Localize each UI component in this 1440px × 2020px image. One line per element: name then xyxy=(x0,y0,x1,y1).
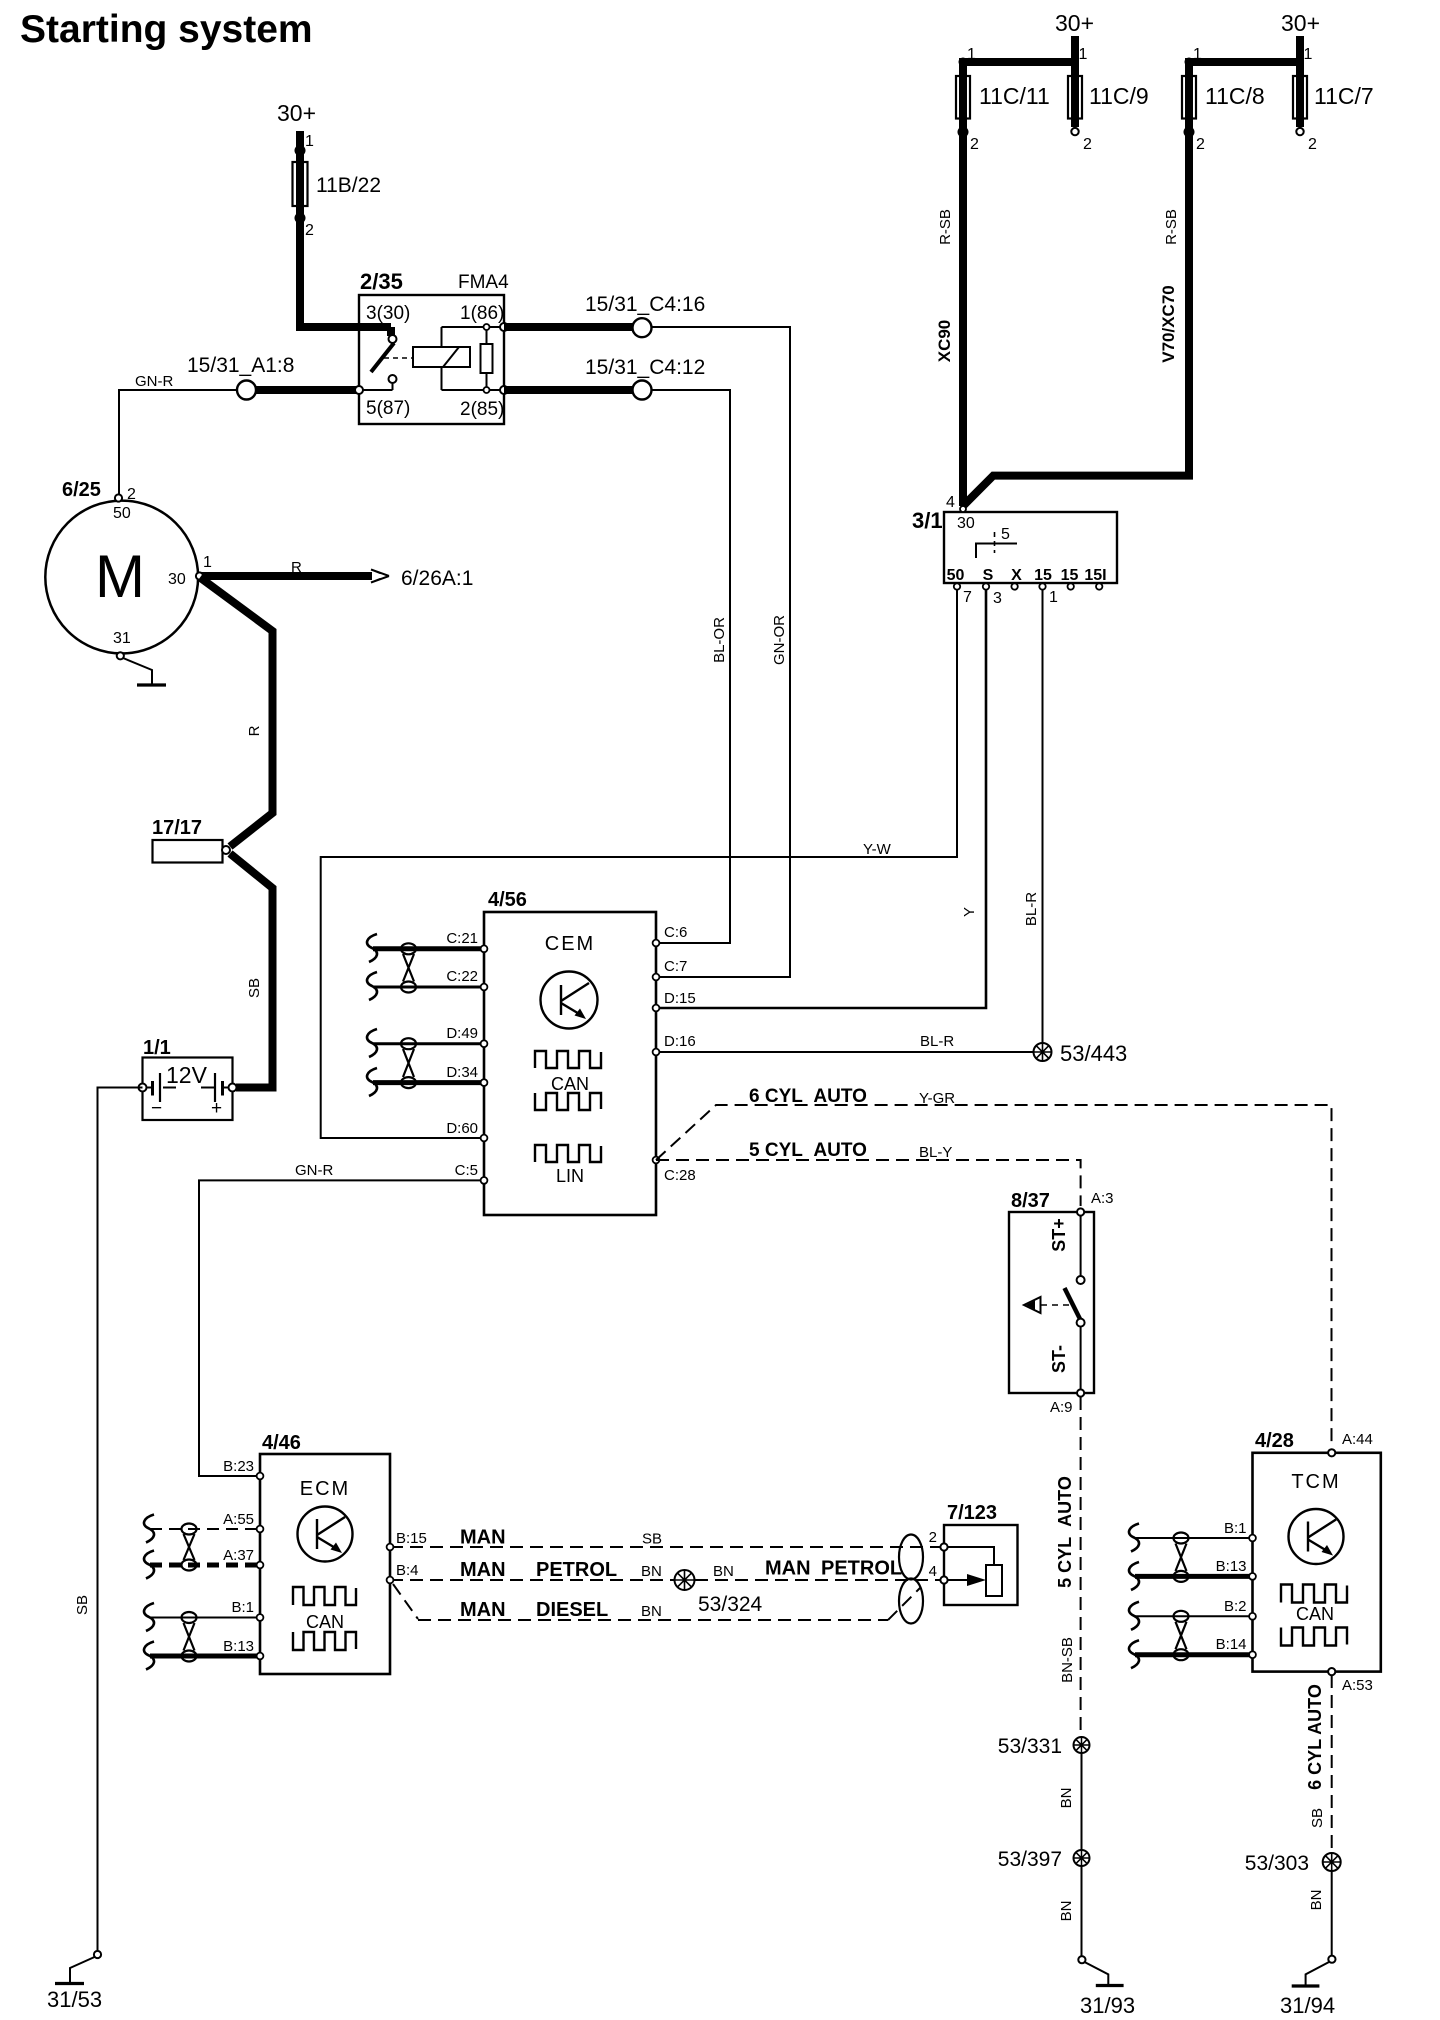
7/123 pin 2 xyxy=(929,1529,948,1551)
hook D:34 xyxy=(367,1068,377,1096)
svg-text:2: 2 xyxy=(305,222,314,239)
TCM control-unit icon xyxy=(1289,1509,1344,1564)
wire thick 15/31_A1:8 to relay pin 5(87) xyxy=(254,386,359,394)
svg-text:2(85): 2(85) xyxy=(460,399,504,420)
twist C:21/C:22 xyxy=(401,943,416,992)
hook TCM B:1 xyxy=(1129,1524,1139,1552)
wire BN splice 53/331 to splice 53/397 xyxy=(1058,1753,1082,1850)
motor pin 2 xyxy=(115,486,136,503)
ignition switch 3/1 box xyxy=(912,508,1117,583)
svg-text:S: S xyxy=(983,567,994,584)
wire ECM B:1 (twisted) xyxy=(150,1617,260,1619)
svg-text:15: 15 xyxy=(1034,567,1052,584)
fuse 11B/22 xyxy=(293,162,382,206)
ground 31/53 xyxy=(47,1951,102,2012)
wire ECM A:37 (dashed thick twisted) xyxy=(150,1563,260,1568)
svg-text:Y: Y xyxy=(961,907,978,917)
svg-text:B:13: B:13 xyxy=(1216,1558,1247,1575)
svg-text:R-SB: R-SB xyxy=(937,209,954,245)
connector 15/31_A1:8 xyxy=(187,354,294,400)
hook A:37 xyxy=(144,1551,154,1579)
wire MAN SB (dashed) ECM B:15 to 7/123 pin 2 xyxy=(390,1527,940,1549)
svg-text:6/25: 6/25 xyxy=(62,479,101,501)
svg-text:BL-OR: BL-OR xyxy=(711,617,728,663)
svg-text:30: 30 xyxy=(168,571,186,588)
svg-text:SB: SB xyxy=(246,978,263,998)
svg-text:11C/9: 11C/9 xyxy=(1089,83,1149,109)
svg-text:BL-R: BL-R xyxy=(1023,892,1040,926)
svg-text:1/1: 1/1 xyxy=(143,1037,171,1059)
CEM LIN symbol xyxy=(535,1145,601,1186)
svg-text:MAN: MAN xyxy=(460,1527,506,1549)
twist A:55/A:37 xyxy=(182,1524,197,1571)
relay 2/35 internal rails xyxy=(359,327,504,390)
fuse 11B/22 pin 2 xyxy=(295,213,315,240)
ground 31/93 xyxy=(1078,1956,1135,2018)
CEM pin D:15 xyxy=(653,990,696,1011)
svg-text:D:60: D:60 xyxy=(446,1120,478,1137)
svg-text:15I: 15I xyxy=(1084,567,1106,584)
svg-text:TCM: TCM xyxy=(1291,1471,1340,1493)
svg-text:BN: BN xyxy=(1308,1890,1325,1911)
hook A:55 xyxy=(144,1515,154,1543)
CEM 4/56 box xyxy=(484,889,656,1215)
svg-text:BL-Y: BL-Y xyxy=(919,1144,952,1161)
svg-text:3/1: 3/1 xyxy=(912,508,943,533)
CEM pin C:5 xyxy=(455,1162,488,1184)
ECM pin B:4 xyxy=(387,1562,419,1583)
svg-text:1: 1 xyxy=(1193,46,1202,63)
ECM 4/46 box xyxy=(260,1432,390,1674)
svg-text:6/26A:1: 6/26A:1 xyxy=(401,567,473,590)
svg-text:R: R xyxy=(246,725,263,736)
relay 2/35 resistor xyxy=(481,324,493,393)
splice 53/324 xyxy=(675,1570,763,1616)
svg-text:31/94: 31/94 xyxy=(1280,1993,1335,2018)
wire 6 CYL AUTO Y-GR (dashed) CEM C:28 to TCM A:44 xyxy=(656,1086,1332,1448)
svg-text:1: 1 xyxy=(1304,46,1313,63)
svg-text:ECM: ECM xyxy=(300,1478,350,1500)
svg-text:−: − xyxy=(151,1098,162,1119)
relay pin circles xyxy=(355,323,508,394)
svg-text:2: 2 xyxy=(1083,136,1092,153)
svg-text:C:7: C:7 xyxy=(664,958,687,975)
svg-text:53/397: 53/397 xyxy=(998,1848,1062,1871)
fuse 11C/7 pin 2 xyxy=(1296,128,1317,153)
ignition 3/1 pin circles xyxy=(954,583,1103,589)
relay 2/35 box xyxy=(359,269,509,424)
ECM pin B:1 xyxy=(231,1599,263,1621)
hook C:22 xyxy=(367,972,377,1000)
ignition 3/1 pin numbers xyxy=(963,589,1058,607)
wire CEM C:22 (twisted) xyxy=(373,986,484,989)
twist before 7/123 xyxy=(899,1535,923,1624)
ECM CAN symbol xyxy=(293,1587,356,1650)
svg-text:2: 2 xyxy=(127,486,136,503)
svg-text:30: 30 xyxy=(957,515,975,532)
svg-text:DIESEL: DIESEL xyxy=(536,1599,608,1621)
motor pin 31 xyxy=(117,652,124,659)
svg-text:C:21: C:21 xyxy=(446,930,478,947)
gear position sensor 7/123 xyxy=(944,1502,1018,1605)
svg-text:2/35: 2/35 xyxy=(360,269,403,294)
svg-text:D:34: D:34 xyxy=(446,1064,478,1081)
hook TCM B:14 xyxy=(1129,1640,1139,1668)
svg-text:1: 1 xyxy=(967,46,976,63)
fuse 11C/11 xyxy=(956,76,1050,119)
wire TCM B:14 (twisted) xyxy=(1135,1652,1253,1657)
svg-text:C:5: C:5 xyxy=(455,1162,478,1179)
svg-text:8/37: 8/37 xyxy=(1011,1190,1050,1212)
hook C:21 xyxy=(367,934,377,962)
wire CEM C:21 (twisted) xyxy=(373,946,484,951)
svg-text:B:15: B:15 xyxy=(396,1530,427,1547)
CEM pin C:22 xyxy=(446,968,487,990)
svg-text:D:15: D:15 xyxy=(664,990,696,1007)
svg-text:BN-SB: BN-SB xyxy=(1059,1637,1076,1683)
CEM pin C:7 xyxy=(653,958,688,980)
hook B:13 xyxy=(144,1642,154,1670)
svg-text:B:1: B:1 xyxy=(1224,1520,1247,1537)
twist B:1/B:13 (TCM) xyxy=(1174,1533,1189,1582)
svg-text:30+: 30+ xyxy=(1281,10,1320,36)
svg-text:1: 1 xyxy=(203,554,212,571)
svg-text:15/31_A1:8: 15/31_A1:8 xyxy=(187,354,294,377)
svg-text:R-SB: R-SB xyxy=(1163,209,1180,245)
svg-text:B:4: B:4 xyxy=(396,1562,419,1579)
clutch switch 8/37 box xyxy=(1009,1190,1094,1393)
wire 30+ to relay 2/35 pin 3(30) xyxy=(300,131,391,336)
wire TCM B:13 (twisted) xyxy=(1135,1574,1253,1579)
fuse 11C/8 xyxy=(1182,76,1265,119)
svg-text:BN: BN xyxy=(713,1563,734,1580)
svg-text:ST-: ST- xyxy=(1049,1345,1069,1373)
svg-text:11C/11: 11C/11 xyxy=(979,83,1050,109)
svg-text:2: 2 xyxy=(1196,136,1205,153)
ECM control-unit icon xyxy=(298,1507,353,1562)
8/37 pin A:3 xyxy=(1077,1190,1114,1216)
svg-text:B:1: B:1 xyxy=(231,1599,254,1616)
svg-text:15/31_C4:12: 15/31_C4:12 xyxy=(585,356,705,379)
splice 53/331 xyxy=(998,1735,1090,1758)
svg-text:B:13: B:13 xyxy=(223,1638,254,1655)
wire BL-R CEM D:16 to splice 53/443 xyxy=(658,1033,1042,1052)
svg-text:11C/8: 11C/8 xyxy=(1205,83,1265,109)
svg-text:11B/22: 11B/22 xyxy=(316,174,381,197)
svg-text:BN: BN xyxy=(641,1563,662,1580)
svg-text:4: 4 xyxy=(946,494,955,511)
splice 53/443 xyxy=(1034,1041,1128,1066)
fuse 11C/9 xyxy=(1068,76,1149,119)
svg-text:MAN: MAN xyxy=(765,1558,811,1580)
svg-text:15: 15 xyxy=(1061,567,1079,584)
TCM CAN symbol xyxy=(1281,1585,1347,1646)
TCM 4/28 box xyxy=(1253,1430,1381,1672)
wire GN-R from connector 15/31_A1:8 to motor pin 2 xyxy=(119,373,247,494)
svg-text:6 CYL AUTO: 6 CYL AUTO xyxy=(749,1086,867,1107)
wire V70/XC70 R-SB: 11C/8 down to ignition 3/1 pin 4 xyxy=(964,58,1194,506)
svg-text:A:3: A:3 xyxy=(1091,1190,1114,1207)
splice 53/303 xyxy=(1245,1852,1341,1875)
svg-text:53/324: 53/324 xyxy=(698,1593,763,1616)
svg-text:SB: SB xyxy=(642,1531,662,1548)
svg-text:5(87): 5(87) xyxy=(366,398,410,419)
svg-text:D:16: D:16 xyxy=(664,1033,696,1050)
wire MAN PETROL BN (dashed) ECM B:4 to splice 53/324 and 7/123 pin 4 xyxy=(390,1558,940,1582)
hook TCM B:13 xyxy=(1129,1562,1139,1590)
svg-text:1: 1 xyxy=(305,133,314,150)
svg-text:5 CYL AUTO: 5 CYL AUTO xyxy=(1055,1476,1075,1588)
node 30+ (V70 feed) xyxy=(1281,10,1320,36)
svg-text:XC90: XC90 xyxy=(935,320,954,363)
svg-text:A:55: A:55 xyxy=(223,1511,254,1528)
motor pin 1 circle xyxy=(196,572,203,579)
svg-text:CAN: CAN xyxy=(306,1612,344,1632)
twist B:1/B:13 xyxy=(182,1612,197,1662)
svg-text:C:28: C:28 xyxy=(664,1167,696,1184)
svg-text:C:6: C:6 xyxy=(664,924,687,941)
wire BL-R ignition 3/1 pin 15 to splice 53/443 xyxy=(1023,590,1043,1052)
svg-text:A:53: A:53 xyxy=(1342,1677,1373,1694)
svg-text:53/443: 53/443 xyxy=(1060,1041,1127,1066)
7/123 pin 4 xyxy=(929,1563,948,1584)
wire CEM D:49 (twisted) xyxy=(373,1042,484,1045)
svg-text:PETROL: PETROL xyxy=(536,1559,617,1581)
splice 53/397 xyxy=(998,1848,1090,1871)
svg-text:4: 4 xyxy=(929,1563,937,1580)
fuse 11C/11 pin 2 xyxy=(958,127,980,154)
svg-text:30+: 30+ xyxy=(277,100,316,126)
svg-text:4/46: 4/46 xyxy=(262,1432,301,1454)
svg-text:2: 2 xyxy=(1308,136,1317,153)
svg-text:Starting system: Starting system xyxy=(20,8,313,51)
junction pin 1 (11C/11) xyxy=(959,46,1088,67)
wire CEM D:34 (twisted) xyxy=(373,1080,484,1085)
hook D:49 xyxy=(367,1029,377,1057)
connector 15/31_C4:16 xyxy=(585,293,705,337)
wire XC90 R-SB: 11C/11 down to ignition 3/1 pin 4 xyxy=(935,58,1075,506)
svg-text:BN: BN xyxy=(1058,1788,1075,1809)
wire 5 CYL AUTO BL-Y (dashed) CEM C:28 to 8/37 A:3 xyxy=(656,1140,1081,1206)
svg-text:C:22: C:22 xyxy=(446,968,478,985)
ignition 3/1 key switch symbol xyxy=(976,532,1017,558)
wire GN-OR connector C4:16 to CEM C:7 xyxy=(651,327,790,977)
node 30+ (left feed) xyxy=(277,100,316,126)
svg-text:X: X xyxy=(1011,567,1022,584)
wire thick relay 2(85) to connector 15/31_C4:12 xyxy=(504,386,633,394)
svg-text:5: 5 xyxy=(1001,526,1010,543)
svg-text:12V: 12V xyxy=(166,1062,208,1088)
wire 30+ stub through fuse 11C/9 xyxy=(1071,36,1079,127)
svg-text:B:2: B:2 xyxy=(1224,1598,1247,1615)
label GN-OR xyxy=(771,615,788,665)
8/37 pin A:9 xyxy=(1050,1389,1084,1416)
ignition 3/1 pin 4 xyxy=(946,494,966,512)
twist B:2/B:14 (TCM) xyxy=(1174,1611,1189,1660)
svg-text:50: 50 xyxy=(947,567,965,584)
hook B:1 xyxy=(144,1603,154,1631)
wire Y ignition 3/1 pin S to CEM D:15 xyxy=(658,590,986,1008)
svg-text:Y-W: Y-W xyxy=(863,841,892,858)
svg-text:30+: 30+ xyxy=(1055,10,1094,36)
fuse 11B/22 pin 1 xyxy=(295,133,315,156)
wire SB battery minus to ground 31/53 xyxy=(74,1088,143,1951)
ignition 3/1 terminal labels xyxy=(947,567,1107,584)
svg-text:7/123: 7/123 xyxy=(947,1502,997,1524)
wire Y-W ignition 3/1 pin 50 to CEM D:60 xyxy=(321,590,957,1138)
svg-text:CAN: CAN xyxy=(551,1074,589,1094)
ECM pin A:55 xyxy=(223,1511,263,1532)
8/37 actuator triangle xyxy=(1024,1297,1073,1313)
wire GN-R CEM C:5 to ECM B:23 xyxy=(199,1162,484,1476)
svg-text:31: 31 xyxy=(113,630,131,647)
svg-text:PETROL: PETROL xyxy=(821,1558,902,1580)
ECM pin A:37 xyxy=(223,1547,263,1568)
fuse 11C/7 xyxy=(1293,76,1374,119)
wire R/SB motor pin 1 to battery via 17/17 xyxy=(200,578,273,1088)
svg-text:CEM: CEM xyxy=(545,933,595,955)
wire BN splice 53/397 to ground 31/93 xyxy=(1058,1866,1082,1956)
ECM pin B:23 xyxy=(223,1458,263,1479)
svg-text:CAN: CAN xyxy=(1296,1604,1334,1624)
svg-text:53/303: 53/303 xyxy=(1245,1852,1309,1875)
TCM pin B:2 xyxy=(1224,1598,1256,1620)
TCM pin A:53 xyxy=(1328,1668,1373,1694)
svg-text:15/31_C4:16: 15/31_C4:16 xyxy=(585,293,705,316)
svg-text:D:49: D:49 xyxy=(446,1025,478,1042)
svg-text:4/28: 4/28 xyxy=(1255,1430,1294,1452)
CEM pin D:34 xyxy=(446,1064,487,1086)
svg-text:R: R xyxy=(291,559,302,576)
svg-text:MAN: MAN xyxy=(460,1599,506,1621)
wire BL-OR connector C4:12 to CEM C:6 xyxy=(651,390,730,943)
8/37 switch contacts xyxy=(1049,1215,1085,1393)
wire R motor pin 1 to 6/26A:1 (arrow) xyxy=(200,559,474,590)
svg-text:Y-GR: Y-GR xyxy=(919,1090,955,1107)
svg-text:M: M xyxy=(95,543,145,610)
battery 1/1 xyxy=(139,1037,237,1120)
TCM pin B:13 xyxy=(1216,1558,1256,1580)
svg-text:6 CYL AUTO: 6 CYL AUTO xyxy=(1305,1684,1325,1790)
motor 6/25 xyxy=(45,479,198,653)
svg-text:A:44: A:44 xyxy=(1342,1431,1373,1448)
CEM control-unit icon xyxy=(541,972,598,1029)
svg-text:A:9: A:9 xyxy=(1050,1399,1073,1416)
CEM pin C:21 xyxy=(446,930,487,952)
CEM pin C:6 xyxy=(653,924,688,946)
svg-text:SB: SB xyxy=(1309,1808,1326,1828)
svg-text:1: 1 xyxy=(1079,46,1088,63)
ECM pin B:13 xyxy=(223,1638,263,1659)
connector 15/31_C4:12 xyxy=(585,356,705,400)
relay 2/35 coil xyxy=(413,327,470,390)
TCM pin B:14 xyxy=(1216,1636,1256,1658)
svg-text:17/17: 17/17 xyxy=(152,817,202,839)
CEM CAN symbol xyxy=(535,1051,601,1110)
svg-text:V70/XC70: V70/XC70 xyxy=(1159,285,1178,363)
svg-text:3(30): 3(30) xyxy=(366,303,410,324)
svg-text:4/56: 4/56 xyxy=(488,889,527,911)
wire 5 CYL AUTO BN-SB (dashed) 8/37 A:9 to splice 53/331 xyxy=(1055,1397,1081,1737)
svg-text:SB: SB xyxy=(74,1595,91,1615)
ECM pin B:15 xyxy=(387,1530,427,1550)
svg-text:7: 7 xyxy=(963,589,972,606)
wire BN splice 53/303 to ground 31/94 xyxy=(1308,1871,1332,1956)
svg-text:A:37: A:37 xyxy=(223,1547,254,1564)
svg-text:MAN: MAN xyxy=(460,1559,506,1581)
svg-text:50: 50 xyxy=(113,505,131,522)
junction pin 1 (11C/8) xyxy=(1185,46,1313,67)
svg-text:B:23: B:23 xyxy=(223,1458,254,1475)
hook TCM B:2 xyxy=(1129,1602,1139,1630)
svg-text:11C/7: 11C/7 xyxy=(1314,83,1374,109)
fuse 11C/9 pin 2 xyxy=(1071,128,1092,153)
svg-text:3: 3 xyxy=(993,590,1002,607)
CEM pin D:16 xyxy=(653,1033,696,1055)
TCM pin A:44 xyxy=(1328,1431,1373,1456)
svg-text:31/93: 31/93 xyxy=(1080,1993,1135,2018)
svg-text:GN-R: GN-R xyxy=(135,373,173,390)
CEM pin C:28 xyxy=(653,1157,696,1184)
CEM pin D:60 xyxy=(446,1120,487,1141)
wire ECM B:13 (twisted) xyxy=(150,1654,260,1659)
ground (motor 31) xyxy=(123,658,166,685)
svg-text:BN: BN xyxy=(641,1603,662,1620)
svg-text:FMA4: FMA4 xyxy=(458,272,509,293)
ground 31/94 xyxy=(1280,1956,1336,2018)
svg-text:BN: BN xyxy=(1058,1901,1075,1922)
wire MAN DIESEL BN (dashed) from ECM B:4 xyxy=(393,1584,920,1621)
svg-text:BL-R: BL-R xyxy=(920,1033,954,1050)
fuse 11C/8 pin 2 xyxy=(1184,127,1206,154)
svg-text:GN-R: GN-R xyxy=(295,1162,333,1179)
CEM pin D:49 xyxy=(446,1025,487,1047)
svg-text:ST+: ST+ xyxy=(1049,1218,1069,1252)
svg-text:1(86): 1(86) xyxy=(460,303,504,324)
svg-text:1: 1 xyxy=(1049,589,1058,606)
svg-text:2: 2 xyxy=(929,1529,937,1546)
TCM pin B:1 xyxy=(1224,1520,1256,1541)
svg-text:B:14: B:14 xyxy=(1216,1636,1247,1653)
wire 30+ stub through fuse 11C/7 xyxy=(1189,36,1300,127)
svg-text:GN-OR: GN-OR xyxy=(771,615,788,665)
svg-text:+: + xyxy=(211,1098,222,1119)
svg-text:2: 2 xyxy=(970,136,979,153)
wire 6 CYL AUTO SB (dashed) TCM A:53 to splice 53/303 xyxy=(1305,1675,1332,1853)
connector 17/17 xyxy=(152,817,230,863)
svg-text:5 CYL AUTO: 5 CYL AUTO xyxy=(749,1140,867,1161)
motor pin 1 xyxy=(203,554,212,571)
svg-text:31/53: 31/53 xyxy=(47,1987,102,2012)
wire ECM A:55 (dashed twisted) xyxy=(150,1528,260,1530)
svg-text:53/331: 53/331 xyxy=(998,1735,1062,1758)
label BL-OR xyxy=(711,617,728,663)
wire TCM B:1 (twisted) xyxy=(1135,1537,1253,1539)
relay 2/35 switch arm xyxy=(371,327,412,390)
wire thick relay 1(86) to connector 15/31_C4:16 xyxy=(504,323,633,331)
wire TCM B:2 (twisted) xyxy=(1135,1615,1253,1617)
twist D:49/D:34 xyxy=(401,1038,416,1088)
svg-text:LIN: LIN xyxy=(556,1166,584,1186)
node 30+ (XC90 feed) xyxy=(1055,10,1094,36)
